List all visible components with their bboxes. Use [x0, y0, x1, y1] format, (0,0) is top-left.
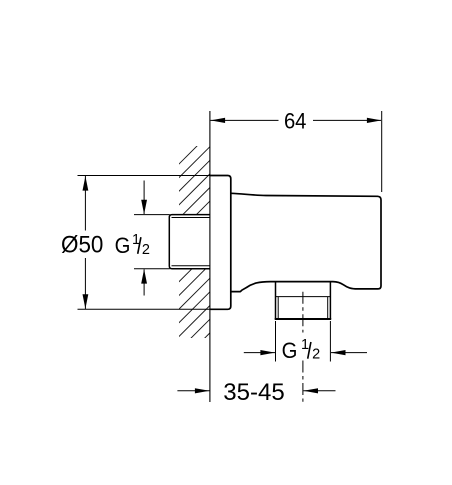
wall hatching lower section — [175, 251, 210, 368]
dim G12 bottom leader left — [244, 352, 275, 354]
svg-text:G: G — [115, 233, 131, 258]
dim 64 extension line right — [381, 111, 383, 192]
outlet thread top line — [276, 296, 331, 298]
dim 35-45 leader left — [177, 390, 209, 392]
dim D50 arrow bottom — [83, 294, 89, 309]
dim 64 arrow left — [211, 118, 226, 123]
dim D50 line upper — [84, 176, 86, 231]
dim 35-45 arrow right — [304, 388, 319, 393]
svg-text:Ø50: Ø50 — [61, 231, 103, 258]
inlet thread G1/2 behind wall — [169, 215, 210, 269]
dim G12 left arrow bottom — [141, 269, 147, 284]
outlet thread inner line left — [277, 297, 279, 319]
dim G12 bottom text slash — [308, 342, 311, 359]
dim 35-45 arrow left — [195, 388, 210, 393]
dim D50 extension line bottom — [78, 308, 211, 310]
dim 64 line right — [313, 119, 381, 121]
dim G12 left arrow top — [141, 200, 147, 215]
dim 64 line left — [211, 119, 279, 121]
svg-text:G: G — [282, 338, 298, 363]
dim D50 line lower — [84, 258, 86, 309]
dim 35-45 leader right — [303, 390, 335, 392]
svg-text:64: 64 — [284, 108, 307, 133]
outlet bottom edge — [275, 318, 332, 320]
dim G12 left text slash — [138, 237, 141, 254]
body outline — [231, 193, 381, 291]
dim G12 left leader top — [143, 181, 145, 215]
dim D50 arrow top — [83, 176, 89, 191]
svg-text:35-45: 35-45 — [223, 379, 284, 406]
outlet thread inner line right — [327, 297, 329, 319]
dim 64 arrow right — [367, 118, 382, 123]
dim G12 bottom extension right — [329, 321, 331, 362]
svg-text:2: 2 — [312, 347, 320, 363]
dim G12 bottom arrow left — [260, 350, 275, 355]
outlet centerline — [302, 292, 304, 333]
dim G12 bottom leader right — [331, 352, 367, 354]
wall face line — [209, 111, 211, 402]
dim G12 bottom arrow right — [331, 350, 346, 355]
outlet right side — [329, 282, 331, 319]
dim D50 extension line top — [78, 175, 211, 177]
dim G12 left extension bottom — [134, 268, 170, 270]
flange — [210, 176, 231, 310]
dim G12 left extension top — [134, 214, 170, 216]
outlet left side — [275, 282, 277, 319]
svg-text:2: 2 — [142, 242, 150, 258]
dim G12 bottom extension left — [275, 321, 277, 362]
svg-text:1: 1 — [301, 337, 309, 353]
inlet thread inner lines — [172, 217, 210, 219]
dim G12 left leader bottom — [143, 269, 145, 295]
wall hatching upper section — [175, 133, 210, 236]
